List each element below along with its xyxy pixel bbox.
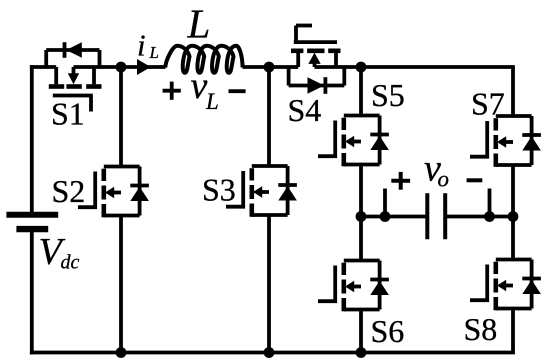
node: top rail / S3 branch junction — [264, 62, 275, 73]
wire: H-bridge right leg, output node to S8 — [511, 217, 515, 260]
wire: top rail, S1 drain to inductor — [74, 65, 166, 69]
node: bottom rail / S3 branch junction — [264, 347, 275, 358]
wire: S3 branch (top rail to S3 drain) — [267, 67, 271, 166]
svg-text:i: i — [137, 28, 146, 63]
wire: S2 branch (S2 source to bottom rail) — [119, 216, 123, 353]
svg-text:S8: S8 — [464, 311, 498, 347]
label - (inductor voltage polarity) — [229, 89, 246, 93]
wire: top rail, S4 drain to H-bridge right leg — [315, 65, 515, 69]
wire: output - terminal stub — [488, 189, 492, 217]
transistor S3 — [226, 166, 288, 217]
node: output - stub junction — [484, 211, 495, 222]
wire: H-bridge left leg, S5 to output node — [359, 165, 363, 217]
svg-text:dc: dc — [61, 252, 80, 274]
wire: H-bridge right leg, S7 to output node — [511, 165, 515, 217]
wire: S3 branch (S3 source to bottom rail) — [267, 215, 271, 353]
svg-text:S1: S1 — [51, 96, 85, 132]
node: output wire / left leg junction — [356, 211, 367, 222]
battery Vdc negative plate — [16, 226, 48, 232]
wire: bottom rail — [30, 351, 515, 355]
transistor S5 — [318, 116, 380, 167]
capacitor C (output) left plate — [425, 193, 429, 239]
wire: H-bridge left leg, output node to S6 — [359, 217, 363, 261]
wire: top rail, inductor to S4 source — [243, 65, 299, 69]
wire: H-bridge right leg, S8 to bottom rail — [511, 309, 515, 353]
wire: S2 branch (top rail to S2 drain) — [119, 67, 123, 167]
node: top rail / H-bridge left leg junction — [356, 62, 367, 73]
current arrow iL — [137, 59, 151, 75]
svg-text:L: L — [205, 89, 219, 114]
wire: H-bridge left leg, S6 to bottom rail — [359, 310, 363, 353]
inductor L — [165, 46, 242, 73]
transistor S8 — [470, 260, 532, 311]
svg-text:S5: S5 — [371, 77, 405, 113]
transistor S1 — [49, 67, 102, 112]
transistor S2 — [78, 167, 140, 218]
transistor S4 — [291, 26, 341, 68]
node: bottom rail / S2 branch junction — [116, 347, 127, 358]
svg-text:S4: S4 — [288, 92, 322, 128]
diode D8 (anti-parallel on S8) — [522, 260, 541, 309]
wire: H-bridge left leg, top rail to S5 — [359, 67, 363, 116]
diode D2 (anti-parallel on S2) — [130, 167, 149, 216]
node: output wire / right leg junction — [508, 211, 519, 222]
battery Vdc positive plate — [6, 212, 58, 218]
wire: output wire right (capacitor to right leg) — [445, 215, 513, 219]
svg-text:v: v — [191, 65, 208, 107]
transistor S7 — [470, 116, 532, 167]
svg-text:L: L — [149, 43, 159, 62]
svg-text:S7: S7 — [471, 86, 505, 122]
wire: H-bridge right leg, top rail to S7 — [511, 67, 515, 116]
label - (output polarity) — [467, 178, 483, 182]
wire: output + terminal stub — [383, 189, 387, 217]
wire: top rail, left segment (Vdc+ to S1 source) — [30, 65, 56, 69]
diode D5 (anti-parallel on S5) — [370, 116, 389, 165]
node: bottom rail / H-bridge left leg junction — [356, 347, 367, 358]
diode D7 (anti-parallel on S7) — [522, 116, 541, 165]
wire: output wire left (left leg to capacitor) — [361, 215, 427, 219]
node: top rail / S2 branch junction — [116, 62, 127, 73]
diode D6 (anti-parallel on S6) — [370, 261, 389, 310]
svg-text:L: L — [187, 1, 211, 47]
capacitor C (output) right plate — [443, 193, 447, 239]
diode D3 (anti-parallel on S3) — [278, 166, 297, 215]
transistor S6 — [318, 261, 380, 312]
label + (output polarity) — [391, 172, 410, 190]
svg-text:S3: S3 — [202, 172, 236, 208]
wire: left rail lower (Vdc- down to bottom rail) — [30, 231, 34, 355]
node: output + stub junction — [380, 211, 391, 222]
label + (inductor voltage polarity) — [163, 82, 181, 100]
diode D1 (anti-parallel on S1) — [46, 42, 99, 67]
svg-text:S2: S2 — [52, 173, 86, 209]
wire: left rail upper (Vdc+ up to top rail) — [30, 65, 34, 213]
diode D4 (anti-parallel on S4) — [289, 67, 345, 94]
svg-text:o: o — [438, 167, 450, 192]
svg-text:S6: S6 — [371, 313, 405, 349]
